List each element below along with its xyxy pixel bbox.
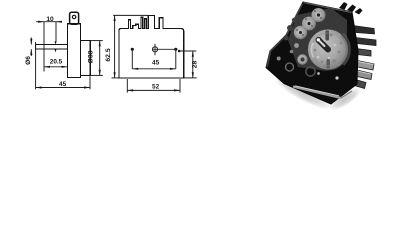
dim 45 front view (132, 51, 176, 70)
cam slots on disc (325, 31, 329, 41)
dim dia6 (30, 38, 32, 57)
dim 28 (179, 51, 197, 78)
svg-text:45: 45 (152, 59, 160, 66)
dim 52 (127, 79, 180, 93)
faint mechanism hints (284, 18, 297, 41)
small arrows on shaft at x=55.5 (55, 41, 57, 52)
gear grain dots (296, 10, 322, 36)
shaft (36, 45, 68, 50)
front body rect (68, 24, 81, 78)
svg-text:28: 28 (192, 61, 199, 69)
terminal box hole (72, 15, 75, 18)
shadow under body (270, 71, 335, 115)
small specks (294, 43, 299, 48)
svg-text:Ø38: Ø38 (88, 50, 95, 63)
shaft (319, 40, 329, 50)
svg-text:20.5: 20.5 (50, 59, 63, 66)
svg-text:52: 52 (152, 84, 160, 91)
small bright gear (297, 54, 307, 64)
disc texture dots (314, 34, 343, 68)
svg-text:45: 45 (59, 81, 67, 88)
side view drawing (36, 12, 91, 77)
timer body (266, 2, 358, 104)
terminal box on top (70, 12, 79, 24)
terminal nubs top right (339, 2, 363, 15)
svg-text:Ø6: Ø6 (25, 56, 32, 65)
big cam disc (308, 29, 349, 70)
dim 20.5 (44, 66, 68, 68)
dim 10 (36, 21, 62, 72)
inner mounting dots and hole (131, 44, 181, 56)
rear body rect (81, 41, 91, 76)
body top bevel (304, 3, 352, 13)
dim 62.5 (112, 15, 149, 78)
svg-text:10: 10 (46, 16, 54, 23)
mechanism plate underlay (288, 8, 347, 71)
screw specks (335, 76, 338, 79)
case outline with terminal tabs (119, 15, 184, 78)
disc rim rings (308, 29, 349, 70)
gear chain (294, 26, 307, 39)
dim 45 side view (36, 42, 90, 89)
dim dia38 (90, 41, 103, 76)
terminals right side (349, 25, 376, 89)
bottom bracket streak (293, 87, 341, 99)
svg-text:62.5: 62.5 (105, 48, 112, 61)
